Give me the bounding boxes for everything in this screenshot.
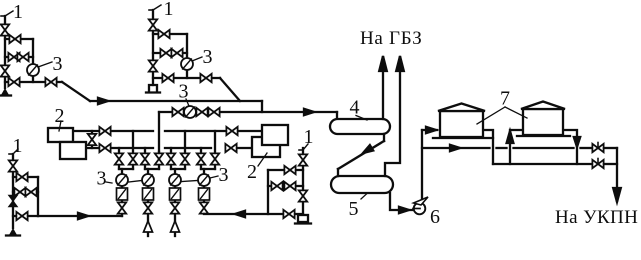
svg-text:3: 3 [53, 53, 63, 75]
svg-text:3: 3 [97, 168, 107, 190]
svg-text:2: 2 [55, 105, 65, 127]
svg-text:1: 1 [13, 1, 23, 23]
svg-text:1: 1 [164, 0, 174, 20]
svg-text:4: 4 [350, 97, 360, 119]
svg-text:3: 3 [219, 164, 229, 186]
svg-text:5: 5 [349, 198, 359, 220]
svg-text:1: 1 [304, 126, 314, 148]
svg-text:На ГБЗ: На ГБЗ [360, 28, 423, 49]
svg-text:На УКПН: На УКПН [555, 207, 638, 228]
svg-text:1: 1 [13, 135, 23, 157]
svg-text:7: 7 [500, 88, 510, 110]
svg-text:3: 3 [203, 46, 213, 68]
svg-text:2: 2 [247, 161, 257, 183]
svg-text:6: 6 [430, 206, 440, 228]
svg-text:3: 3 [179, 81, 189, 103]
